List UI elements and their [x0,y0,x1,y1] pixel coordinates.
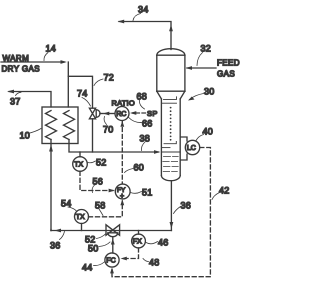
arrowhead to valve [103,112,109,116]
leader for 37 [16,92,22,95]
transmitter TX52 circle [73,157,88,172]
svg-text:DRY GAS: DRY GAS [2,65,41,74]
wire bottom return line [51,230,171,232]
svg-text:+: + [120,193,124,200]
leader for 52 bottom [97,234,107,239]
leader for 36 right [174,207,181,214]
wire left riser corner [50,230,52,231]
arrowhead up into exchanger [49,145,53,152]
svg-text:36: 36 [50,241,61,251]
leader for 68 [139,101,144,110]
leader for 10 [28,129,41,134]
svg-text:FEED: FEED [217,59,240,68]
svg-text:37: 37 [10,97,21,107]
leader for 50 [99,242,110,247]
arrowhead down on outlet [170,222,174,229]
leader for 54 [68,207,77,212]
wire TX52 stub [79,152,81,157]
relay FY circle [115,184,130,199]
leader for 34 [133,14,141,21]
wire feed gas line 32 [187,67,216,69]
column C30 shoulder seam [157,54,185,56]
leader for 60 [125,169,134,173]
heat exchanger right coil [64,111,75,140]
wire FX stub [138,231,140,235]
leader for 74 [82,98,91,107]
leader for 66 [129,118,142,123]
column C30 taper [157,91,185,99]
bed bottom marker [164,141,176,143]
wire SP input dashed [133,112,146,114]
svg-text:TX: TX [76,214,85,221]
svg-text:72: 72 [104,73,115,83]
heat exchanger E10 shell [42,107,78,144]
signal RC to FY dashed 60 [121,121,123,183]
wire column bottoms outlet [170,181,172,231]
leader for 56 [92,185,94,193]
svg-text:WARM: WARM [3,54,30,63]
svg-text:36: 36 [181,201,192,211]
column C30 bottom dome [161,176,180,181]
svg-text:52: 52 [96,158,107,168]
arrowhead feed into column [186,66,192,70]
svg-text:74: 74 [77,89,88,99]
valve V52 body [106,225,120,235]
wire valve V52 stem signal [112,237,114,253]
svg-text:TX: TX [74,162,83,169]
valve V74 stub to controller [100,113,103,115]
bed packing dotted line [170,107,172,141]
leader for 70 [104,117,106,125]
arrowhead 30 leader [188,97,195,101]
svg-text:10: 10 [20,131,31,141]
wire outlet line 37 [9,92,51,108]
leader for 44 [94,262,105,266]
leader for 52 top [88,161,96,163]
leader for 46 [146,242,158,244]
column C30 tube walls [161,99,180,176]
svg-text:40: 40 [203,127,214,137]
svg-text:SP: SP [147,109,158,118]
controller LC circle [185,140,199,154]
leader for 72 [94,79,103,86]
valve V74 actuator dome [96,110,100,118]
leader for 14 [44,53,48,61]
svg-text:66: 66 [142,119,153,129]
svg-text:14: 14 [46,44,57,54]
wire cooled gas line 38 [69,140,159,153]
bed bottom lower line [162,147,171,149]
svg-text:51: 51 [142,188,153,198]
column C30 upper shell [157,55,185,91]
leader for 36 left [60,232,65,240]
svg-text:50: 50 [88,244,99,254]
valve V52 actuator dome [108,233,118,237]
wire cold gas riser into exchanger [50,140,52,231]
leader for 38 [141,142,145,151]
svg-text:FC: FC [106,258,115,265]
leader for 58 [99,209,103,216]
signal LC to FC dashed line 42 [112,148,210,277]
svg-text:GAS: GAS [217,70,235,79]
svg-text:RATIO: RATIO [112,99,135,108]
arrowhead into FY left [109,189,115,193]
leader for 51 [131,192,142,194]
column C30 top dome [157,49,185,56]
svg-text:60: 60 [134,163,145,173]
wire RC output to valve 74 [105,113,115,115]
heat exchanger left coil [46,111,57,140]
svg-text:58: 58 [95,201,106,211]
wire overhead line 34 [119,22,171,50]
wire valve 74 outlet [92,119,94,152]
leader for 30 [190,94,204,100]
column C30 lower seam [157,90,185,92]
svg-text:LC: LC [187,145,196,152]
leader for 48 [143,259,149,262]
arrowhead on line 14 [61,60,67,64]
transmitter TX54 circle [75,210,89,224]
arrowhead up into FY bottom [120,199,124,205]
leader for 32 [197,53,203,66]
arrowhead left on 34 [118,20,125,24]
arrowhead on line 37 [7,90,14,94]
arrowhead up into FC [110,267,114,273]
signal TX54 to FY dashed 58 [89,201,123,217]
arrowhead up on riser [169,25,173,32]
controller RC circle [115,107,129,121]
arrowhead entering column [154,150,160,154]
LC lower tap [180,154,187,160]
bed top marker [164,97,177,100]
liquid shading dashes [163,157,178,172]
svg-text:42: 42 [219,186,230,196]
liquid level line [161,151,180,153]
svg-text:32: 32 [201,44,212,54]
arrowhead into FC right [121,257,127,261]
svg-text:54: 54 [61,199,72,209]
LC upper tap [180,137,187,141]
svg-text:46: 46 [158,238,169,248]
wire warm dry gas line 14 [1,62,68,107]
arrowhead SP into RC [130,111,136,115]
svg-text:RC: RC [116,111,126,118]
arrowhead up into RC [120,121,124,127]
leader for 42 [212,193,220,200]
arrowhead up into valve dome [111,239,115,245]
leader for 40 [196,135,204,141]
svg-text:68: 68 [137,92,148,102]
transmitter FX circle [132,234,146,248]
svg-text:30: 30 [204,87,215,97]
svg-text:34: 34 [138,5,149,15]
svg-text:44: 44 [82,263,93,273]
signal TX52 to FY dashed 56 [80,171,113,190]
wire TX54 stub [81,224,83,231]
signal FX to FC dashed 48 [123,248,139,259]
bed top lower line [162,102,177,104]
arrowhead left on bottom line [55,229,62,233]
svg-text:FX: FX [133,239,142,246]
controller FC circle [105,253,119,267]
svg-text:70: 70 [103,125,114,135]
svg-text:48: 48 [149,258,160,268]
wire bypass branch 72 [68,76,92,107]
valve V74 body [89,108,95,119]
